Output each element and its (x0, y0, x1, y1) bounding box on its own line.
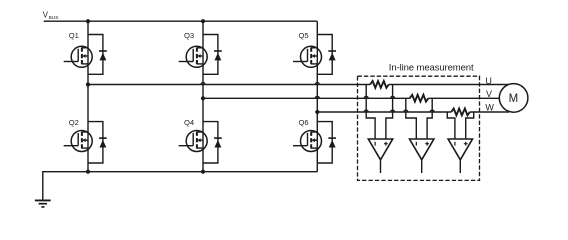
svg-text:W: W (485, 102, 494, 112)
svg-text:In-line measurement: In-line measurement (389, 63, 474, 74)
svg-text:M: M (509, 93, 519, 105)
svg-text:BUS: BUS (49, 15, 59, 21)
svg-text:Q4: Q4 (184, 118, 194, 127)
svg-text:V: V (486, 89, 492, 99)
svg-text:U: U (485, 76, 492, 86)
svg-text:Q5: Q5 (299, 31, 309, 40)
svg-text:Q6: Q6 (299, 118, 309, 127)
svg-text:Q1: Q1 (69, 31, 79, 40)
svg-text:Q3: Q3 (184, 31, 194, 40)
svg-text:Q2: Q2 (69, 118, 79, 127)
